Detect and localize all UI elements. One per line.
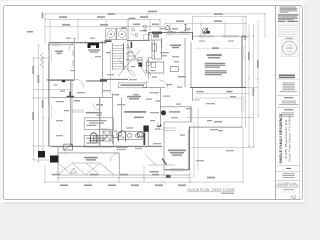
powder room fixtures — [139, 63, 143, 67]
porch icon — [71, 168, 77, 173]
master suite walls — [159, 88, 161, 127]
foyer schedule box — [118, 83, 146, 88]
top row texts — [148, 11, 157, 13]
mid horizontal wall — [50, 96, 113, 98]
bottom dimension lines — [58, 177, 190, 179]
left rotated texts — [32, 66, 34, 74]
svg-text:North Palm Beach, FL 33408: North Palm Beach, FL 33408 — [287, 115, 291, 161]
stair direction arrows — [118, 44, 146, 76]
great room label block — [198, 54, 233, 92]
great room bottom wall — [190, 86, 246, 88]
toilet room box — [94, 136, 101, 143]
consultant bold rows — [279, 75, 295, 79]
patio bottom wall — [190, 126, 243, 128]
extra fine annotation marks — [54, 27, 234, 161]
top dimension line second — [45, 18, 160, 20]
bay window chevrons — [40, 53, 43, 67]
master closet — [164, 127, 176, 129]
interior dim text great room — [212, 47, 219, 49]
svg-text:GROUND FLOOR: GROUND FLOOR — [276, 184, 299, 188]
nook wall dark header — [152, 32, 162, 34]
closet double lines — [72, 109, 84, 111]
dimension text blobs — [32, 11, 258, 186]
small fixture details — [58, 43, 176, 162]
title block inner right rule — [299, 5, 301, 199]
border frame — [3, 5, 302, 199]
dark pocket door strip — [143, 126, 149, 132]
bottom row texts — [60, 184, 68, 186]
dining room walls — [49, 45, 74, 81]
corridor wall — [70, 80, 72, 146]
tub — [113, 131, 118, 138]
master right thick wall — [187, 129, 189, 170]
hall wall — [99, 97, 101, 146]
symbols left of nook — [144, 25, 147, 28]
kitchen-greatroom wall — [184, 38, 186, 87]
bottom wall bath row — [50, 145, 162, 147]
kitchen bottom wall — [143, 86, 165, 88]
top dimension line overall — [45, 13, 265, 15]
entry label under door — [88, 49, 100, 52]
stair tread numbers — [126, 47, 129, 60]
interior dimension line kitchen — [165, 33, 191, 35]
dim line at foyer left — [109, 50, 111, 95]
exterior fixture blob above great room — [203, 28, 210, 35]
info rows — [277, 164, 299, 166]
wall below stairs — [127, 41, 129, 71]
great room corner segment — [242, 36, 245, 40]
right wall — [241, 36, 243, 87]
left dimension lines — [33, 58, 35, 160]
fixture marks — [118, 132, 122, 136]
master entry fixture — [161, 110, 166, 115]
misc small marks scattered — [27, 12, 236, 135]
small symbols top middle — [131, 28, 138, 36]
top wall under laundry — [127, 40, 150, 42]
revision table rules — [278, 24, 299, 37]
hall wall at foyer — [100, 78, 128, 80]
svg-text:SINGLE FAMILY RESIDENCE: SINGLE FAMILY RESIDENCE — [279, 113, 283, 163]
master bottom wall — [164, 169, 190, 171]
architect seal — [282, 40, 298, 57]
great room top wall — [192, 35, 248, 37]
door threshold dark blob on dining bottom wall — [62, 80, 65, 83]
master right wall — [189, 127, 191, 170]
svg-text:A2: A2 — [291, 194, 297, 199]
dimension slash ticks — [33, 13, 267, 183]
tick above dining — [73, 39, 75, 43]
right rotated texts — [248, 52, 250, 60]
hall door jamb — [131, 42, 133, 48]
wall at master hall — [147, 126, 149, 147]
vanity with sinks — [126, 132, 143, 140]
architect info text block 1 — [280, 7, 298, 13]
nook jog — [149, 33, 193, 41]
porch walls — [58, 152, 119, 154]
top extension lines — [44, 14, 46, 44]
right dimension lines — [248, 24, 250, 148]
triangle ceiling symbol — [165, 25, 171, 29]
shower box — [103, 131, 111, 141]
left wall — [48, 43, 50, 147]
window glazing marks on exterior walls — [49, 32, 244, 171]
title block separator — [274, 5, 276, 199]
section cut mark — [184, 25, 186, 31]
top wall left wing — [49, 42, 107, 44]
architect info text block 2 — [278, 14, 298, 22]
page shadow bottom — [3, 202, 306, 204]
project title vertical text — [279, 113, 291, 163]
svg-text:FLOOR PLAN - FIRST FLOOR: FLOOR PLAN - FIRST FLOOR — [188, 188, 236, 192]
bath fixture arch icons (dark) — [91, 131, 144, 143]
kitchen left wall — [101, 41, 103, 98]
pantry door arc — [143, 81, 149, 87]
